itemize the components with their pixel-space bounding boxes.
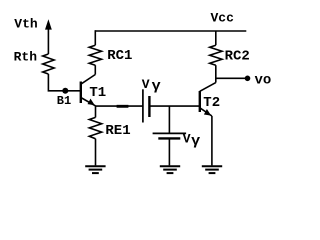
ground under RE1 [85,166,105,173]
svg-text:RE1: RE1 [105,123,130,139]
wire vo tap [216,77,248,79]
label Vgamma1 [142,77,162,94]
svg-text:Rth: Rth [14,50,38,65]
resistor RE1 [89,117,101,138]
wire Vcc rail [95,30,246,32]
svg-text:B1: B1 [57,94,71,108]
svg-text:T2: T2 [203,95,220,111]
transistor T1 [81,75,96,106]
svg-text:V: V [183,132,191,147]
battery V1 short plate [148,96,150,117]
transistor T2 [200,83,216,166]
svg-text:RC1: RC1 [107,48,132,64]
resistor Rth [43,54,54,74]
svg-text:RC2: RC2 [225,49,250,65]
battery V1 long plate [142,89,144,122]
wire T1 emitter down to RE1 [95,106,97,117]
resistor RC2 [210,31,222,83]
wire battery V2 to ground [168,138,170,165]
wire Rth bottom to base wire [48,74,80,91]
svg-text:T1: T1 [89,85,106,101]
battery V2 long plate [153,132,187,134]
svg-text:γ: γ [191,133,201,149]
battery V2 short plate [158,137,180,139]
wire RE1 to ground [95,139,97,166]
source arrow Vth [45,19,52,54]
wire junction down [168,106,170,133]
svg-text:vo: vo [255,73,272,89]
ground under battery V2 [160,166,180,173]
ground under T2 emitter [202,166,222,173]
wire battery to T2 base [149,105,199,107]
label Vgamma2 [183,132,201,150]
node vo [245,76,251,82]
svg-text:Vth: Vth [14,16,38,31]
wire overlap segment [117,105,129,108]
svg-text:γ: γ [152,78,162,94]
resistor RC1 [89,30,101,74]
node B1 [62,88,68,94]
svg-text:Vcc: Vcc [211,10,235,25]
wire T1 emitter to battery [96,105,143,107]
svg-text:V: V [142,77,150,92]
